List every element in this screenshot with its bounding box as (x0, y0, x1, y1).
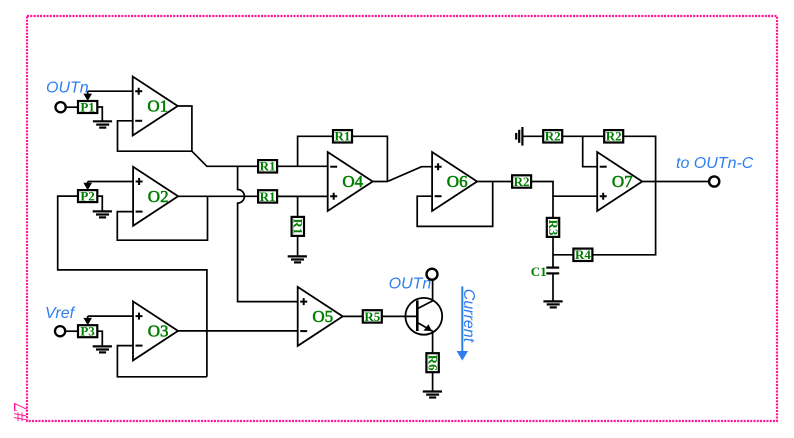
svg-text:#7: #7 (11, 403, 32, 422)
wire R1d to ground (297, 236, 299, 257)
svg-text:R1: R1 (260, 189, 276, 204)
op-amp O2 (133, 167, 178, 226)
port P1 (78, 99, 97, 114)
svg-text:O5: O5 (312, 307, 333, 326)
resistor R1 d vertical (291, 217, 306, 236)
wire summing node vertical with hop over O2 output (238, 166, 298, 301)
svg-text:R1: R1 (335, 129, 351, 144)
resistor R6 vertical (425, 353, 440, 372)
wire R1b to O4 + (277, 195, 328, 197)
op-amp O5 (298, 287, 343, 346)
ground below R6 (423, 392, 442, 398)
ground rotated left of R2b (516, 127, 522, 146)
wire R6 to ground (432, 372, 434, 391)
svg-text:R2: R2 (606, 129, 622, 144)
wire R1a to O4 - (277, 165, 328, 167)
resistor R2 c feedback (604, 129, 623, 144)
wire O4 feedback left (298, 136, 333, 166)
port circle collector (427, 269, 438, 280)
ground at P1 (93, 121, 112, 127)
resistor R1 a (258, 159, 277, 174)
svg-text:P2: P2 (80, 188, 94, 203)
arrow into P2 (83, 182, 92, 191)
svg-text:R1: R1 (291, 218, 306, 234)
wire down to R3 (552, 196, 554, 218)
svg-text:Vref: Vref (45, 305, 76, 322)
wire R1c to O4 output (352, 136, 387, 181)
wire (66, 330, 78, 332)
wire O5 output to R5 (343, 315, 363, 317)
ground below R1d (288, 256, 307, 262)
wire P1 to O1 + (88, 90, 133, 92)
resistor R4 (573, 247, 592, 262)
svg-text:R5: R5 (364, 309, 380, 324)
svg-text:R2: R2 (514, 174, 530, 189)
arrow into P1 (83, 91, 92, 101)
svg-text:OUTn: OUTn (389, 276, 432, 293)
svg-text:O2: O2 (148, 187, 169, 206)
svg-text:R6: R6 (425, 355, 440, 371)
svg-text:P1: P1 (80, 99, 94, 114)
ground at P2 (93, 211, 112, 217)
op-amp O1 (133, 77, 178, 136)
wire O7 output to port (642, 181, 708, 183)
capacitor C1 (531, 264, 559, 279)
wire O7 - input (583, 136, 598, 166)
op-amp O4 (328, 152, 373, 211)
wire O3 output to O5 - (178, 330, 298, 332)
resistor R1 c feedback (333, 129, 352, 144)
wire O6 output (477, 181, 512, 183)
wire R5 to transistor base (382, 315, 418, 317)
wire P2 left to O3 output node (58, 196, 207, 377)
resistor R3 vertical (546, 218, 561, 237)
op-amp O3 (133, 301, 178, 360)
arrow into P3 (83, 316, 92, 325)
wire P3 to O3 + (88, 315, 133, 317)
svg-text:R3: R3 (546, 219, 561, 235)
svg-text:O6: O6 (447, 172, 468, 191)
svg-text:C1: C1 (531, 264, 547, 279)
svg-text:R1: R1 (260, 159, 276, 174)
wire P1 to ground (97, 107, 102, 121)
wire O3 - feedback (117, 346, 206, 377)
wire O6 - feedback (417, 182, 493, 227)
op-amp O6 (432, 152, 477, 211)
svg-text:Current: Current (460, 289, 477, 343)
wire O2 output (178, 195, 258, 197)
port P3 circle (55, 326, 65, 336)
wire C1 to ground (552, 273, 554, 301)
wire O1 - feedback (118, 121, 192, 151)
wire P2 to O2 + (88, 181, 133, 183)
svg-text:O1: O1 (147, 97, 168, 116)
svg-text:OUTn: OUTn (46, 80, 89, 97)
ground at P3 (93, 346, 112, 352)
wire P2 to ground (97, 196, 102, 211)
wire gnd to R2b (522, 135, 543, 137)
resistor R2 a (512, 174, 531, 189)
svg-text:O7: O7 (612, 172, 633, 191)
wire R3 to C1 (552, 237, 554, 268)
current arrow (457, 286, 468, 360)
port P1 circle (56, 102, 66, 112)
resistor R5 (363, 309, 382, 324)
wire R2b to junction and R2c (562, 135, 604, 137)
svg-text:O4: O4 (342, 172, 363, 191)
resistor R1 b (258, 189, 277, 204)
ground below C1 (543, 301, 562, 307)
wire junction down to R1d (297, 196, 299, 217)
op-amp O7 (597, 152, 642, 211)
wire O4 output diagonal to O6 (373, 167, 432, 182)
svg-text:O3: O3 (148, 322, 169, 341)
port P3 (78, 324, 97, 339)
resistor R2 b (543, 129, 562, 144)
wire R2a to O7 + (531, 182, 597, 197)
svg-text:R2: R2 (545, 129, 561, 144)
svg-text:to OUTn-C: to OUTn-C (676, 155, 754, 172)
wire junction to R4 (553, 254, 573, 256)
port circle out (709, 176, 719, 186)
wire O1 output (177, 106, 258, 166)
wire O2 - feedback (117, 196, 207, 240)
wire R2c to output node (623, 136, 655, 181)
wire R4 up to output node (592, 182, 655, 255)
wire (66, 106, 78, 108)
transistor Q1 (405, 280, 442, 353)
svg-text:P3: P3 (80, 324, 95, 339)
wire P3 to ground (97, 331, 102, 346)
port P2 (78, 188, 97, 203)
svg-text:R4: R4 (575, 247, 591, 262)
